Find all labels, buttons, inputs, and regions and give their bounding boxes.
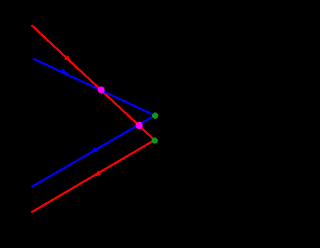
arrowhead blue incident bbox=[60, 68, 69, 76]
arrowhead red reflected bbox=[92, 171, 101, 179]
wire red reflected ray bbox=[31, 140, 154, 212]
node green dot 2 (red ray endpoint) bbox=[152, 137, 158, 143]
arrowhead red incident bbox=[64, 55, 73, 64]
wire blue incident ray bbox=[33, 59, 155, 116]
wire blue reflected ray bbox=[31, 115, 154, 187]
wire red incident ray bbox=[32, 25, 155, 140]
node magenta dot 1 (crossing of incident rays) bbox=[98, 86, 105, 93]
node green dot 1 (blue ray endpoint) bbox=[152, 113, 158, 119]
arrowhead blue reflected bbox=[89, 147, 98, 155]
node magenta dot 2 (crossing of red incident and blue reflected) bbox=[136, 122, 143, 129]
